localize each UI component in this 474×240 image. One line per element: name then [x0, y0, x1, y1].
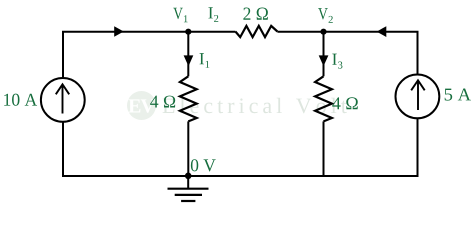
resistor 4ohm right value label: [332, 97, 358, 109]
node V1 junction dot: [185, 29, 191, 35]
arrow for current I3 (down-pointing): [319, 55, 329, 66]
node V1 label: [173, 8, 183, 19]
resistor 2ohm (horizontal zigzag): [235, 26, 277, 37]
wire V2 branch lower (resistor 4ohm right down to bottom wire): [323, 121, 325, 176]
ground bar 2: [175, 194, 202, 196]
wire V2 branch upper (node V2 down to resistor 4ohm right): [323, 32, 325, 77]
current source 5A value label: [445, 89, 471, 101]
resistor 4ohm right (vertical zigzag): [315, 76, 332, 121]
wire V1 branch upper (node V1 down to resistor 4ohm left): [187, 32, 189, 77]
current I3 label: [332, 54, 336, 65]
wire bottom rail (left source down, across bottom, up to right source): [63, 118, 418, 176]
node 0V junction dot: [185, 173, 192, 180]
current source 10A inner up-arrow: [56, 84, 69, 113]
current source 5A circle: [396, 75, 440, 119]
wire top-left segment (left source up and right to node V1): [63, 32, 188, 78]
watermark logo circle: [127, 91, 156, 120]
wire top-middle segment (node V1 to resistor 2ohm): [188, 31, 235, 33]
current I2 label: [208, 7, 212, 18]
watermark logo EV monogram: [128, 99, 154, 112]
watermark text Electrical Volt: [163, 98, 347, 114]
node V2 label: [318, 8, 328, 19]
current I1 label: [200, 53, 204, 64]
arrow for current I2 (right-pointing, on top-left wire): [114, 26, 124, 37]
current source 10A circle: [41, 78, 85, 122]
current source 10A value label: [4, 94, 37, 106]
resistor 4ohm left value label: [150, 96, 175, 108]
arrow on top-right wire (left-pointing, from 5A source toward V2): [377, 26, 387, 37]
wire V1 branch lower (resistor 4ohm left down to bottom wire): [187, 121, 189, 176]
resistor 2ohm value label: [243, 8, 268, 20]
wire top-right segment (resistor 2ohm to node V2, right corner, down to 5A source): [277, 32, 417, 75]
arrow for current I1 (down-pointing): [184, 55, 194, 66]
current source 5A inner up-arrow: [411, 80, 425, 110]
ground stem: [187, 176, 189, 189]
node 0V label: [191, 159, 216, 171]
node V2 junction dot: [320, 29, 326, 35]
ground bar 3: [181, 200, 195, 202]
resistor 4ohm left (vertical zigzag): [180, 76, 197, 121]
ground bar 1: [168, 188, 209, 190]
